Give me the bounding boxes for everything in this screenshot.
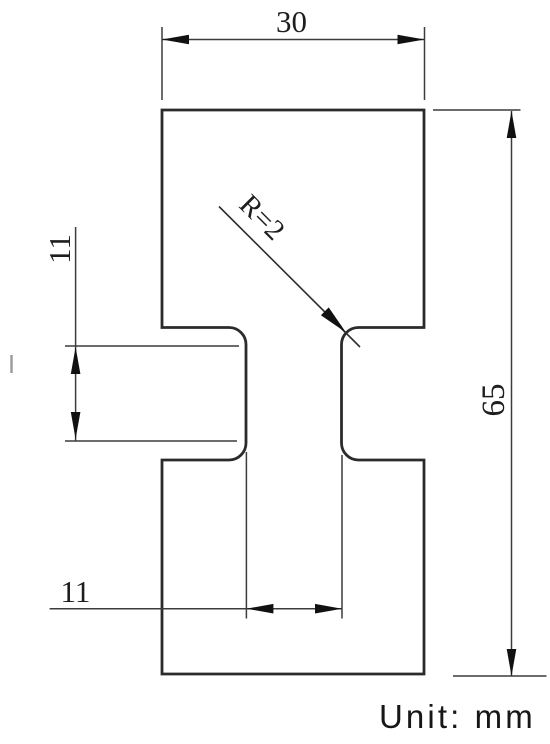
dim 30: dimension line xyxy=(162,39,425,41)
leader R=2: leader line xyxy=(219,207,360,348)
svg-text:65: 65 xyxy=(476,384,512,417)
dim 65: bottom arrowhead xyxy=(507,649,517,676)
specimen outline (dog-bone shape) xyxy=(162,110,424,674)
stray grey tick at far left xyxy=(10,355,12,373)
dim 11 bottom: right extension line xyxy=(341,455,343,619)
svg-text:30: 30 xyxy=(276,4,307,39)
dim 30: right extension line xyxy=(424,27,426,100)
dim 11 bottom: left arrowhead xyxy=(246,604,273,614)
dim 65: top arrowhead xyxy=(507,111,517,138)
svg-text:11: 11 xyxy=(60,574,90,609)
svg-text:R=2: R=2 xyxy=(233,189,291,247)
dim 11 left: up arrowhead xyxy=(71,347,81,374)
dim 65: top extension line xyxy=(433,109,521,111)
dim 11 bottom: left extension line xyxy=(245,452,247,619)
dim 11 left: top extension line xyxy=(65,345,239,347)
dim 30: left arrowhead xyxy=(162,35,189,45)
svg-text:11: 11 xyxy=(42,234,77,264)
dim 30: right arrowhead xyxy=(398,35,425,45)
svg-text:Unit: mm: Unit: mm xyxy=(379,698,536,735)
dim 65: dimension line xyxy=(511,111,513,676)
dim 11 left: down arrowhead xyxy=(71,412,81,439)
dim 11 left: dimension line xyxy=(75,227,77,441)
dim 11 bottom: right arrowhead xyxy=(315,604,342,614)
dim 30: left extension line xyxy=(161,27,163,100)
leader R=2: arrowhead xyxy=(321,307,346,332)
dim 11 left: bottom extension line xyxy=(65,440,237,442)
dim 11 bottom: dimension line xyxy=(50,608,342,610)
dim 65: bottom extension line xyxy=(453,675,547,677)
